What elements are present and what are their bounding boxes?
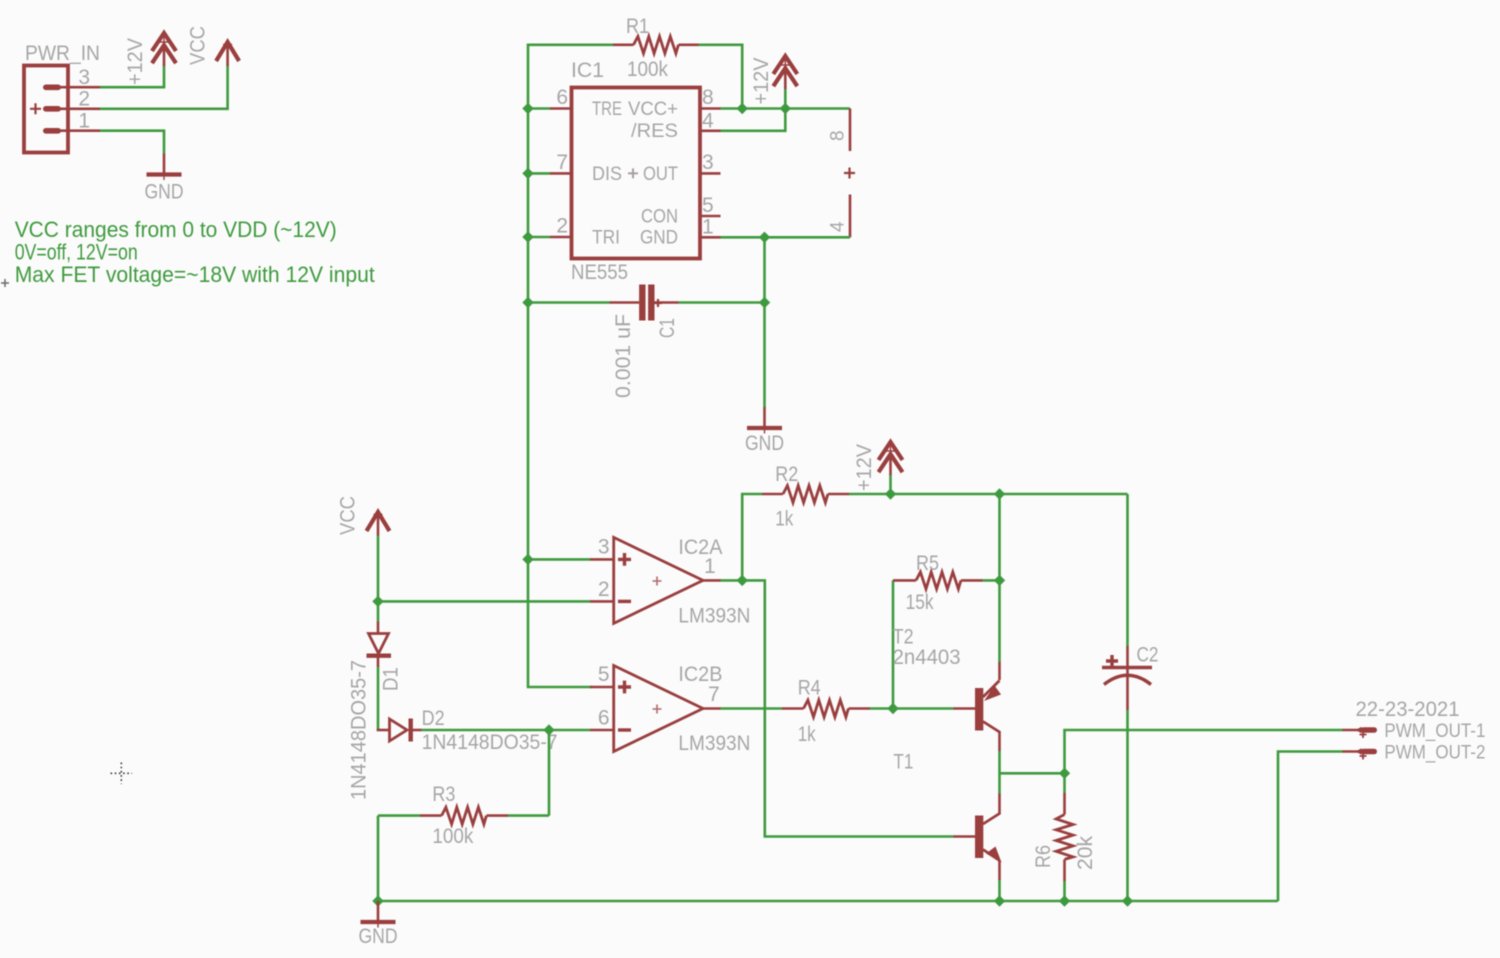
wire +12V stem (IC1) <box>784 89 787 109</box>
pin 5 stub (CON) <box>700 215 721 218</box>
svg-text:/RES: /RES <box>631 121 678 142</box>
svg-text:DIS: DIS <box>592 164 622 185</box>
svg-text:OUT: OUT <box>643 164 678 185</box>
svg-text:VCC: VCC <box>337 496 360 535</box>
svg-text:LM393N: LM393N <box>678 732 750 755</box>
svg-text:R5: R5 <box>916 552 939 575</box>
pin PWM_OUT-1 <box>1343 727 1378 738</box>
op-amp IC2A <box>590 537 721 623</box>
junction IC2A pin3 bus <box>522 554 533 565</box>
op-amp IC2B <box>590 666 721 752</box>
pin 6 stub (TRE) <box>550 107 572 110</box>
timer IC1 box <box>572 88 701 259</box>
wire C2 to bus <box>1126 710 1129 901</box>
wire stub pin2 <box>528 236 550 239</box>
svg-text:R4: R4 <box>798 677 821 700</box>
svg-text:22-23-2021: 22-23-2021 <box>1356 698 1460 721</box>
svg-text:LM393N: LM393N <box>678 605 750 628</box>
svg-text:NE555: NE555 <box>571 261 628 284</box>
wire pin3 to +12V <box>100 66 164 88</box>
svg-text:2: 2 <box>598 578 610 601</box>
svg-text:TRI: TRI <box>592 228 620 249</box>
svg-text:4: 4 <box>828 221 849 232</box>
junction D2/R3 <box>543 724 554 735</box>
wire GND drop (C1 net) <box>763 237 766 407</box>
svg-text:D2: D2 <box>422 707 445 730</box>
pin PWM_OUT-2 <box>1343 748 1378 759</box>
svg-text:100k: 100k <box>627 58 668 81</box>
wire VCC to D1/pin2 <box>377 536 380 602</box>
wire IC2A pin2 row <box>378 600 590 603</box>
wire pin1 to GND <box>100 131 164 154</box>
diode D1 <box>367 622 392 668</box>
resistor R2 <box>762 486 849 503</box>
junction pin2 bus <box>522 231 533 242</box>
supply VCC (top left) <box>216 40 239 67</box>
svg-text:VCC+: VCC+ <box>628 99 678 120</box>
svg-text:1: 1 <box>704 555 716 578</box>
supply +12V (mid) <box>879 442 903 475</box>
svg-text:6: 6 <box>556 86 568 109</box>
wire IC2A pin3 branch <box>528 558 590 561</box>
wire VCC junction to D1 <box>377 601 380 621</box>
svg-text:GND: GND <box>145 181 184 204</box>
svg-text:VCC: VCC <box>187 26 210 65</box>
wire pin1/GND net <box>721 236 851 239</box>
svg-text:PWM_OUT-2: PWM_OUT-2 <box>1384 743 1485 764</box>
svg-text:3: 3 <box>702 151 714 174</box>
wire T2 collector to T1 collector <box>998 751 1001 794</box>
pin 1 stub (GND) <box>700 236 721 239</box>
wire +12V rail top <box>849 493 1128 496</box>
svg-text:1: 1 <box>78 110 90 133</box>
svg-text:3: 3 <box>598 536 610 559</box>
wire stub pin7 <box>528 172 550 175</box>
junction D1/VCC/pin2 <box>372 596 383 607</box>
svg-text:1N4148DO35-7: 1N4148DO35-7 <box>348 660 371 800</box>
svg-text:C1: C1 <box>656 318 679 338</box>
wire C1 right <box>679 301 765 304</box>
resistor R5 <box>893 572 1000 589</box>
capacitor pin 4 lead (bypass cap) <box>849 195 852 238</box>
svg-text:R2: R2 <box>775 463 798 486</box>
wire ground bus <box>378 900 1278 903</box>
junction IC2A out <box>737 575 748 586</box>
svg-text:0.001 uF: 0.001 uF <box>612 314 635 398</box>
svg-text:1: 1 <box>702 216 714 239</box>
svg-text:7: 7 <box>708 683 720 706</box>
svg-text:R6: R6 <box>1032 845 1055 868</box>
wire PWM_OUT-2 <box>1278 752 1343 902</box>
capacitor C2 (polarized) <box>1102 646 1152 710</box>
capacitor pin 8 lead (bypass cap) <box>849 109 852 152</box>
svg-text:4: 4 <box>702 110 714 133</box>
svg-text:1k: 1k <box>775 508 793 531</box>
junction pin8/R1 <box>737 103 748 114</box>
junction pin7 bus <box>522 168 533 179</box>
pin 3 stub (OUT) <box>700 172 721 175</box>
svg-text:0V=off, 12V=on: 0V=off, 12V=on <box>15 240 138 265</box>
wire +12V stem (mid) <box>889 475 892 495</box>
wire T2 emitter drop <box>998 580 1001 662</box>
pin 7 stub (DIS) <box>550 172 572 175</box>
svg-text:1N4148DO35-7: 1N4148DO35-7 <box>422 731 558 754</box>
svg-text:R1: R1 <box>626 15 649 38</box>
svg-text:PWM_OUT-1: PWM_OUT-1 <box>1384 721 1485 742</box>
pin 8 stub (VCC+) <box>700 107 721 110</box>
wire +12V to T2 emitter <box>998 494 1001 580</box>
junction pin6 bus <box>522 103 533 114</box>
wire R3 left drop to bus <box>377 816 380 901</box>
resistor R6 <box>1056 773 1073 901</box>
wire stub pin6 <box>528 107 550 110</box>
pin 4 stub (/RES) <box>700 130 721 133</box>
wire R1 right to pin8 net <box>699 45 743 109</box>
wire IC2A out <box>721 579 743 582</box>
junction collector tap/R6 <box>1059 768 1070 779</box>
resistor R1 <box>613 36 699 53</box>
wire pin8 net <box>721 107 851 110</box>
junction R4/R5 <box>887 703 898 714</box>
wire R2 riser <box>742 494 762 580</box>
junction pin1/GND <box>759 232 770 243</box>
diode D2 <box>377 719 422 742</box>
svg-text:1k: 1k <box>798 723 816 746</box>
svg-text:15k: 15k <box>906 591 934 614</box>
wire R1 left / TRE-DIS-TRI bus top <box>528 45 613 109</box>
resistor R4 <box>782 700 870 717</box>
wire IC2A out to T1 base <box>742 580 953 836</box>
ground symbol (PWR_IN) <box>147 154 182 181</box>
svg-text:GND: GND <box>745 432 784 455</box>
pin 2 stub (TRI) <box>550 236 572 239</box>
junction +12V stem <box>885 488 896 499</box>
ground symbol (IC1) <box>747 407 782 434</box>
svg-text:TRE: TRE <box>592 99 622 120</box>
svg-text:2n4403: 2n4403 <box>893 646 961 669</box>
svg-text:R3: R3 <box>432 783 455 806</box>
svg-text:+12V: +12V <box>124 38 147 85</box>
wire pin4 to pin8 net <box>721 109 786 131</box>
junction C1 right <box>759 297 770 308</box>
capacitor plus mark (bypass cap) <box>844 168 855 179</box>
wire pin2 to VCC <box>100 66 228 109</box>
ground symbol (bottom) <box>361 901 396 928</box>
wire IC2B out to R4 <box>721 707 783 710</box>
supply VCC (D1) <box>367 510 390 537</box>
svg-text:+12V: +12V <box>853 444 876 491</box>
svg-text:T1: T1 <box>893 751 913 774</box>
junction bus/R6 <box>1059 895 1070 906</box>
wire +12V rail down to C2 <box>1126 494 1129 646</box>
wire T1 emitter to bus <box>998 880 1001 901</box>
svg-text:CON: CON <box>641 207 678 228</box>
svg-text:6: 6 <box>598 707 610 730</box>
connector PWR_IN (3-pin header) <box>24 66 100 153</box>
svg-text:VCC ranges from 0 to VDD (~12V: VCC ranges from 0 to VDD (~12V) <box>15 217 337 242</box>
capacitor C1 <box>610 285 679 321</box>
svg-text:PWR_IN: PWR_IN <box>25 42 100 65</box>
supply +12V (above IC1) <box>773 56 797 89</box>
svg-text:D1: D1 <box>380 667 403 691</box>
wire left bus (TRE/DIS/TRI/C1/IC2) <box>528 109 592 688</box>
svg-text:C2: C2 <box>1137 644 1159 667</box>
junction bus/C2 <box>1122 895 1133 906</box>
wire PWM_OUT-1 <box>1065 730 1343 773</box>
svg-text:8: 8 <box>828 130 849 141</box>
svg-text:5: 5 <box>702 194 714 217</box>
wire D1 to D2 <box>377 667 380 730</box>
svg-text:+12V: +12V <box>750 58 773 105</box>
note origin cross <box>1 279 9 287</box>
svg-text:100k: 100k <box>432 825 473 848</box>
junction bus/T1 emitter <box>994 895 1005 906</box>
wire R3 right riser <box>548 730 551 816</box>
svg-text:2: 2 <box>556 215 568 238</box>
transistor T2 (PNP 2n4403) <box>954 662 1002 751</box>
svg-text:7: 7 <box>556 151 568 174</box>
wire C1 left <box>528 301 610 304</box>
junction bus/R3-GND <box>372 895 383 906</box>
svg-text:GND: GND <box>359 925 398 948</box>
wire D2 to IC2B pin6 <box>422 729 591 732</box>
wire R5 riser <box>892 580 895 708</box>
junction pin8/+12V <box>780 103 791 114</box>
svg-text:3: 3 <box>78 66 90 89</box>
svg-text:5: 5 <box>598 663 610 686</box>
wire collector tap <box>1000 772 1065 775</box>
junction C1 left bus <box>522 297 533 308</box>
svg-text:20k: 20k <box>1074 835 1097 870</box>
supply +12V (top left) <box>152 33 176 66</box>
svg-text:2: 2 <box>78 88 90 111</box>
svg-text:GND: GND <box>640 228 678 249</box>
svg-text:IC2A: IC2A <box>678 536 722 559</box>
svg-text:8: 8 <box>702 86 714 109</box>
resistor R3 <box>378 807 549 824</box>
transistor T1 (NPN) <box>954 794 1002 881</box>
svg-text:IC1: IC1 <box>571 59 604 82</box>
junction +12V/T2 <box>994 488 1005 499</box>
svg-text:Max FET voltage=~18V with 12V: Max FET voltage=~18V with 12V input <box>15 262 375 287</box>
junction R5/collector rail <box>994 575 1005 586</box>
sheet reference cross <box>111 763 133 785</box>
wire R4 to T2 base <box>870 707 954 710</box>
